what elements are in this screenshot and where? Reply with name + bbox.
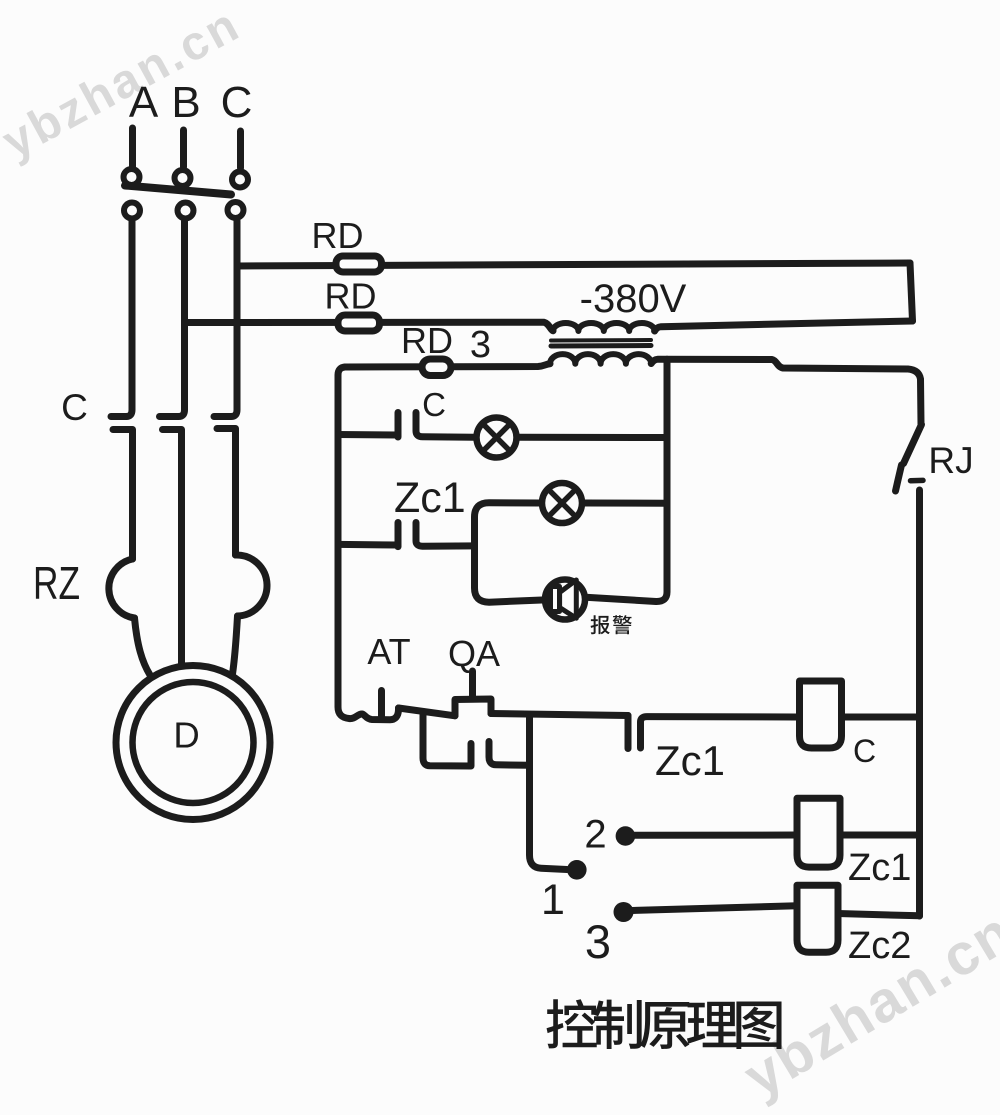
- wire dot2 to Zc1 coil: [634, 832, 797, 839]
- wire secondary right to RJ: [651, 359, 921, 424]
- main contact C pole2 lower: [163, 430, 182, 664]
- main contact C pole3 lower: [217, 429, 236, 556]
- contact C right tick: [416, 413, 474, 438]
- fuse RD2: [338, 315, 380, 331]
- svg-text:RD: RD: [325, 276, 377, 317]
- svg-text:Zc1: Zc1: [848, 847, 911, 889]
- contact RJ blade: [904, 425, 922, 464]
- svg-text:RD: RD: [312, 215, 364, 256]
- vertical wire to selector: [530, 716, 568, 870]
- wire Zc2 coil to bus: [838, 914, 920, 916]
- contact C left tick: [395, 413, 402, 438]
- motor inner circle: [133, 682, 254, 803]
- wire primary right to funnel: [655, 321, 913, 331]
- lamp 2 cross: [549, 490, 575, 516]
- right lamp bus: [588, 359, 667, 601]
- right power bus: [916, 490, 923, 916]
- transformer core line 1: [551, 338, 651, 343]
- contact Zc1 NO left tick: [625, 716, 632, 749]
- svg-text:3: 3: [470, 324, 491, 366]
- main contact C pole1 lower: [113, 430, 133, 560]
- wire RD3 row: [345, 364, 550, 367]
- alarm sounder circle: [545, 580, 585, 620]
- svg-text:B: B: [171, 78, 200, 127]
- selector dot 3: [614, 902, 634, 922]
- wire pole1 to motor: [135, 618, 151, 675]
- wire RD2 row to transformer primary: [185, 322, 554, 331]
- transformer secondary coil: [550, 354, 651, 364]
- svg-text:RZ: RZ: [33, 557, 80, 609]
- coil Zc1: [797, 798, 840, 867]
- contact Zc1 right tick: [416, 523, 475, 547]
- alarm branch left wall lower: [475, 561, 543, 602]
- svg-text:C: C: [221, 78, 253, 127]
- thermal element RZ pole3 bulge: [236, 555, 268, 616]
- selector dot 2: [616, 826, 636, 846]
- terminal circle B upper: [175, 170, 191, 186]
- main wire QA to Zc1 contact: [491, 714, 628, 716]
- svg-text:C: C: [422, 386, 446, 423]
- left control bus: [338, 367, 399, 720]
- svg-text:C: C: [853, 733, 876, 769]
- svg-text:RD: RD: [401, 320, 453, 361]
- svg-text:-380V: -380V: [580, 277, 687, 321]
- speaker box: [551, 587, 560, 612]
- QA NO contact right leg: [489, 742, 530, 766]
- title char 制: [594, 1000, 642, 1049]
- wire dot3 to Zc2 coil: [632, 906, 797, 911]
- lamp 2: [542, 483, 582, 523]
- title char 理: [687, 1002, 737, 1048]
- svg-text:D: D: [173, 715, 199, 756]
- fuse RD3: [422, 359, 451, 376]
- contact RJ fixed tick: [911, 478, 924, 484]
- wire phase A down: [111, 221, 132, 417]
- transformer core line 2: [551, 343, 651, 349]
- wire Zc1 coil to bus: [840, 832, 920, 839]
- wire lamp2 right: [585, 500, 667, 507]
- transformer primary coil: [553, 323, 655, 331]
- alarm branch left wall: [475, 503, 540, 561]
- phase A stub: [129, 128, 136, 168]
- wire C coil to bus: [842, 714, 920, 721]
- svg-text:A: A: [129, 78, 159, 127]
- wire phase C down: [214, 221, 237, 417]
- contact RJ blade lower: [896, 465, 902, 491]
- svg-text:ybzhan.cn: ybzhan.cn: [0, 0, 249, 169]
- svg-text:1: 1: [541, 876, 565, 924]
- phase B stub: [180, 130, 187, 167]
- thermal element RZ pole1 bulge: [109, 559, 135, 618]
- svg-text:Zc2: Zc2: [848, 925, 911, 967]
- svg-text:C: C: [61, 387, 88, 428]
- wire phase B down: [160, 221, 185, 417]
- contact Zc1 left tick: [395, 523, 402, 547]
- terminal circle C upper: [232, 172, 248, 188]
- svg-text:3: 3: [585, 915, 611, 968]
- knife switch blade: [125, 186, 231, 195]
- lamp 1 cross: [484, 425, 510, 451]
- coil Zc2: [797, 885, 838, 952]
- QA NO contact left leg: [423, 712, 471, 767]
- branch wire to contact C: [338, 431, 398, 439]
- contact Zc1 NO right tick: [641, 717, 797, 748]
- lamp 1: [477, 418, 517, 458]
- label baojing (alarm): [591, 615, 610, 634]
- wire RD1 row: [237, 263, 910, 266]
- svg-text:Zc1: Zc1: [655, 737, 725, 784]
- terminal circle C lower: [228, 202, 244, 218]
- pushbutton QA stem: [469, 671, 476, 699]
- motor outer circle: [116, 666, 270, 820]
- funnel right vertical: [910, 263, 913, 321]
- terminal circle B lower: [178, 203, 194, 219]
- title char 图: [736, 1002, 781, 1050]
- svg-text:QA: QA: [448, 633, 500, 674]
- fuse RD1: [336, 256, 382, 272]
- wire pole3 to motor: [233, 616, 238, 674]
- selector dot 1: [567, 860, 587, 880]
- wire lamp1 right: [519, 434, 667, 441]
- svg-text:Zc1: Zc1: [394, 474, 466, 522]
- AT blade: [399, 708, 456, 716]
- terminal circle A lower: [124, 203, 140, 219]
- svg-text:AT: AT: [367, 631, 410, 672]
- coil C: [800, 681, 842, 748]
- branch wire to contact Zc1: [338, 541, 398, 549]
- title char 控: [547, 999, 597, 1048]
- terminal circle A upper: [124, 169, 140, 185]
- phase C stub: [237, 131, 244, 168]
- title char 原: [640, 1002, 689, 1049]
- svg-text:2: 2: [584, 813, 606, 857]
- pushbutton QA bridge: [455, 699, 491, 716]
- speaker horn: [560, 580, 577, 618]
- AT tick: [378, 691, 385, 720]
- svg-text:RJ: RJ: [928, 440, 973, 481]
